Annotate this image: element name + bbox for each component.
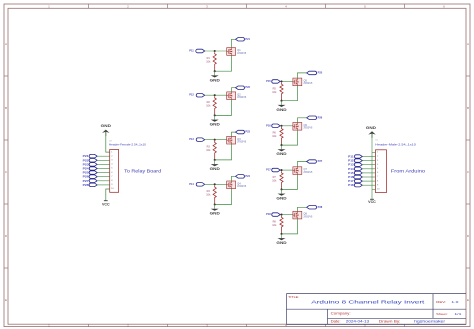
junction source/resistor xyxy=(280,233,282,235)
transistor Q3 2N7002P-VB xyxy=(227,136,236,144)
pin stub wires xyxy=(372,151,376,153)
svg-text:2N7002P-VB: 2N7002P-VB xyxy=(304,216,313,218)
transistor Q4 2N7002P-VB xyxy=(227,181,236,189)
junction source/resistor xyxy=(280,100,282,102)
svg-text:GND: GND xyxy=(210,78,221,82)
svg-text:GND: GND xyxy=(276,197,287,201)
resistor R1 10k xyxy=(213,52,216,71)
wire gate net P12 xyxy=(205,94,227,96)
svg-text:P28: P28 xyxy=(83,183,90,187)
svg-text:E: E xyxy=(5,298,7,302)
junction source/resistor xyxy=(214,203,216,205)
svg-text:P25: P25 xyxy=(318,70,323,74)
svg-text:P28: P28 xyxy=(318,205,323,209)
svg-text:To Relay Board: To Relay Board xyxy=(124,168,161,173)
resistor R4 10k xyxy=(213,186,216,205)
svg-text:From Arduino: From Arduino xyxy=(391,169,426,174)
svg-text:Company:: Company: xyxy=(331,311,351,315)
junction gate/resistor xyxy=(214,50,216,52)
wire drain to P21 xyxy=(232,39,236,47)
wire source return xyxy=(215,144,232,160)
wire pin10 to VCC xyxy=(371,189,373,199)
node P21 output port flag xyxy=(236,38,245,42)
junction gate/resistor xyxy=(214,94,216,96)
wire source return xyxy=(215,55,232,71)
svg-text:VCC: VCC xyxy=(102,203,110,207)
junction source/resistor xyxy=(280,188,282,190)
node P27 output port flag xyxy=(307,160,317,163)
svg-text:P23: P23 xyxy=(245,130,250,134)
svg-text:B: B xyxy=(5,106,7,110)
svg-text:P24: P24 xyxy=(245,174,250,178)
junction gate/resistor xyxy=(214,139,216,141)
svg-text:GND: GND xyxy=(210,167,221,171)
svg-text:Q2: Q2 xyxy=(237,93,241,96)
wire gate net P15 xyxy=(280,80,293,82)
svg-text:Sheet:: Sheet: xyxy=(436,312,448,316)
title block xyxy=(286,294,466,325)
resistor R8 10k xyxy=(280,216,283,234)
svg-text:P18: P18 xyxy=(266,212,271,216)
svg-text:Header-Female-2.54_1x10: Header-Female-2.54_1x10 xyxy=(109,143,147,147)
junction source/resistor xyxy=(280,144,282,146)
node P25 output port flag xyxy=(307,71,317,75)
ground block 7 xyxy=(281,189,283,193)
wire drain to P26 xyxy=(298,118,307,123)
svg-text:Q4: Q4 xyxy=(237,182,241,185)
svg-text:2N7002P-VB: 2N7002P-VB xyxy=(304,128,313,130)
power VCC left xyxy=(104,200,108,202)
svg-text:TITLE:: TITLE: xyxy=(288,295,299,299)
junction source/resistor xyxy=(214,114,216,116)
wire gate net P18 xyxy=(280,214,293,216)
resistor R6 10k xyxy=(280,127,283,145)
wire gate net P11 xyxy=(205,50,227,52)
svg-text:2024-04-13: 2024-04-13 xyxy=(346,320,370,324)
svg-text:1.0: 1.0 xyxy=(451,300,459,304)
ground block 5 xyxy=(281,101,283,105)
svg-text:A: A xyxy=(5,42,7,46)
connector CN1 Header-Female body xyxy=(110,150,119,193)
ground block 1 xyxy=(214,71,216,75)
svg-text:2N7002P-VB: 2N7002P-VB xyxy=(237,186,246,188)
ground block 3 xyxy=(214,160,216,164)
svg-text:hgshoemaker: hgshoemaker xyxy=(414,320,446,324)
node P23 output port flag xyxy=(236,130,245,134)
svg-text:Q1: Q1 xyxy=(237,49,241,52)
svg-text:P16: P16 xyxy=(266,123,271,127)
svg-text:GND: GND xyxy=(276,152,287,156)
svg-text:B: B xyxy=(467,106,469,110)
wire source return xyxy=(282,174,298,189)
svg-text:GND: GND xyxy=(366,126,377,130)
svg-text:P13: P13 xyxy=(189,137,194,141)
wire gate net P14 xyxy=(205,183,227,185)
resistor R7 10k xyxy=(280,171,283,189)
svg-text:P15: P15 xyxy=(266,79,271,83)
junction source/resistor xyxy=(214,159,216,161)
svg-text:Drawn By:: Drawn By: xyxy=(379,320,401,324)
node P28 output port flag xyxy=(307,206,317,210)
svg-text:2N7002P-VB: 2N7002P-VB xyxy=(304,83,313,85)
wire source return xyxy=(282,219,298,234)
wire pin10 to VCC xyxy=(106,189,110,201)
svg-text:GND: GND xyxy=(276,241,287,245)
wire drain to P24 xyxy=(232,176,236,181)
svg-text:Header-Male-2.54_1x10: Header-Male-2.54_1x10 xyxy=(375,143,416,147)
node P24 output port flag xyxy=(236,175,245,179)
resistor R3 10k xyxy=(213,141,216,160)
ground block 6 xyxy=(281,145,283,149)
node P26 output port flag xyxy=(307,116,317,120)
ground block 2 xyxy=(214,115,216,119)
svg-text:A: A xyxy=(467,42,469,46)
wire gnd bus vertical xyxy=(371,134,373,189)
svg-text:1/1: 1/1 xyxy=(454,312,462,316)
svg-text:VCC: VCC xyxy=(368,200,376,204)
svg-text:REV:: REV: xyxy=(436,300,446,304)
resistor R5 10k xyxy=(280,83,283,101)
svg-text:P18: P18 xyxy=(348,183,354,187)
transistor Q1 2N7002P-VB xyxy=(227,48,236,56)
ground block 4 xyxy=(214,205,216,209)
connector CN2 Header-Male body xyxy=(376,150,387,193)
svg-text:P26: P26 xyxy=(318,115,323,119)
junction gate/resistor xyxy=(280,214,282,216)
svg-text:2N7002P-VB: 2N7002P-VB xyxy=(237,53,246,55)
svg-text:P17: P17 xyxy=(266,168,271,172)
wire source return xyxy=(215,100,232,116)
junction gate/resistor xyxy=(280,169,282,171)
svg-text:Arduino 8 Channel Relay Invert: Arduino 8 Channel Relay Invert xyxy=(311,300,425,306)
wire source return xyxy=(215,189,232,205)
svg-text:E: E xyxy=(467,298,469,302)
resistor R2 10k xyxy=(213,96,216,115)
svg-text:GND: GND xyxy=(210,123,221,127)
svg-text:GND: GND xyxy=(276,108,287,112)
svg-text:P11: P11 xyxy=(189,49,194,53)
wire gate net P13 xyxy=(205,139,227,141)
svg-text:GND: GND xyxy=(101,124,112,128)
wire gate net P17 xyxy=(280,169,293,171)
wire drain to P25 xyxy=(298,73,307,78)
svg-text:Q3: Q3 xyxy=(237,138,241,141)
junction source/resistor xyxy=(214,70,216,72)
wire gate net P16 xyxy=(280,125,293,127)
transistor Q7 2N7002P-VB xyxy=(293,167,302,175)
svg-text:2N7002P-VB: 2N7002P-VB xyxy=(237,97,246,99)
wire drain to P22 xyxy=(232,88,236,92)
wire drain to P28 xyxy=(298,207,307,211)
wire drain to P23 xyxy=(232,132,236,136)
wire source return xyxy=(282,130,298,145)
junction gate/resistor xyxy=(280,80,282,82)
wire gnd to pin1 xyxy=(106,133,110,153)
node P22 output port flag xyxy=(236,86,245,90)
wire drain to P27 xyxy=(298,162,307,167)
junction gate/resistor xyxy=(280,125,282,127)
svg-text:2N7002P-VB: 2N7002P-VB xyxy=(237,142,246,144)
svg-text:P22: P22 xyxy=(245,85,250,89)
junction gate/resistor xyxy=(214,183,216,185)
svg-text:GND: GND xyxy=(210,212,221,216)
transistor Q2 2N7002P-VB xyxy=(227,92,236,100)
ground block 8 xyxy=(281,234,283,238)
power VCC right xyxy=(370,198,374,200)
svg-text:P12: P12 xyxy=(189,93,194,97)
transistor Q8 2N7002P-VB xyxy=(293,211,302,219)
svg-text:P21: P21 xyxy=(245,37,250,41)
svg-text:Date:: Date: xyxy=(331,320,341,324)
transistor Q5 2N7002P-VB xyxy=(293,78,302,86)
svg-text:P27: P27 xyxy=(318,159,323,163)
svg-text:P14: P14 xyxy=(189,182,194,186)
transistor Q6 2N7002P-VB xyxy=(293,123,302,131)
wire source return xyxy=(282,86,298,101)
svg-text:2N7002P-VB: 2N7002P-VB xyxy=(304,172,313,174)
